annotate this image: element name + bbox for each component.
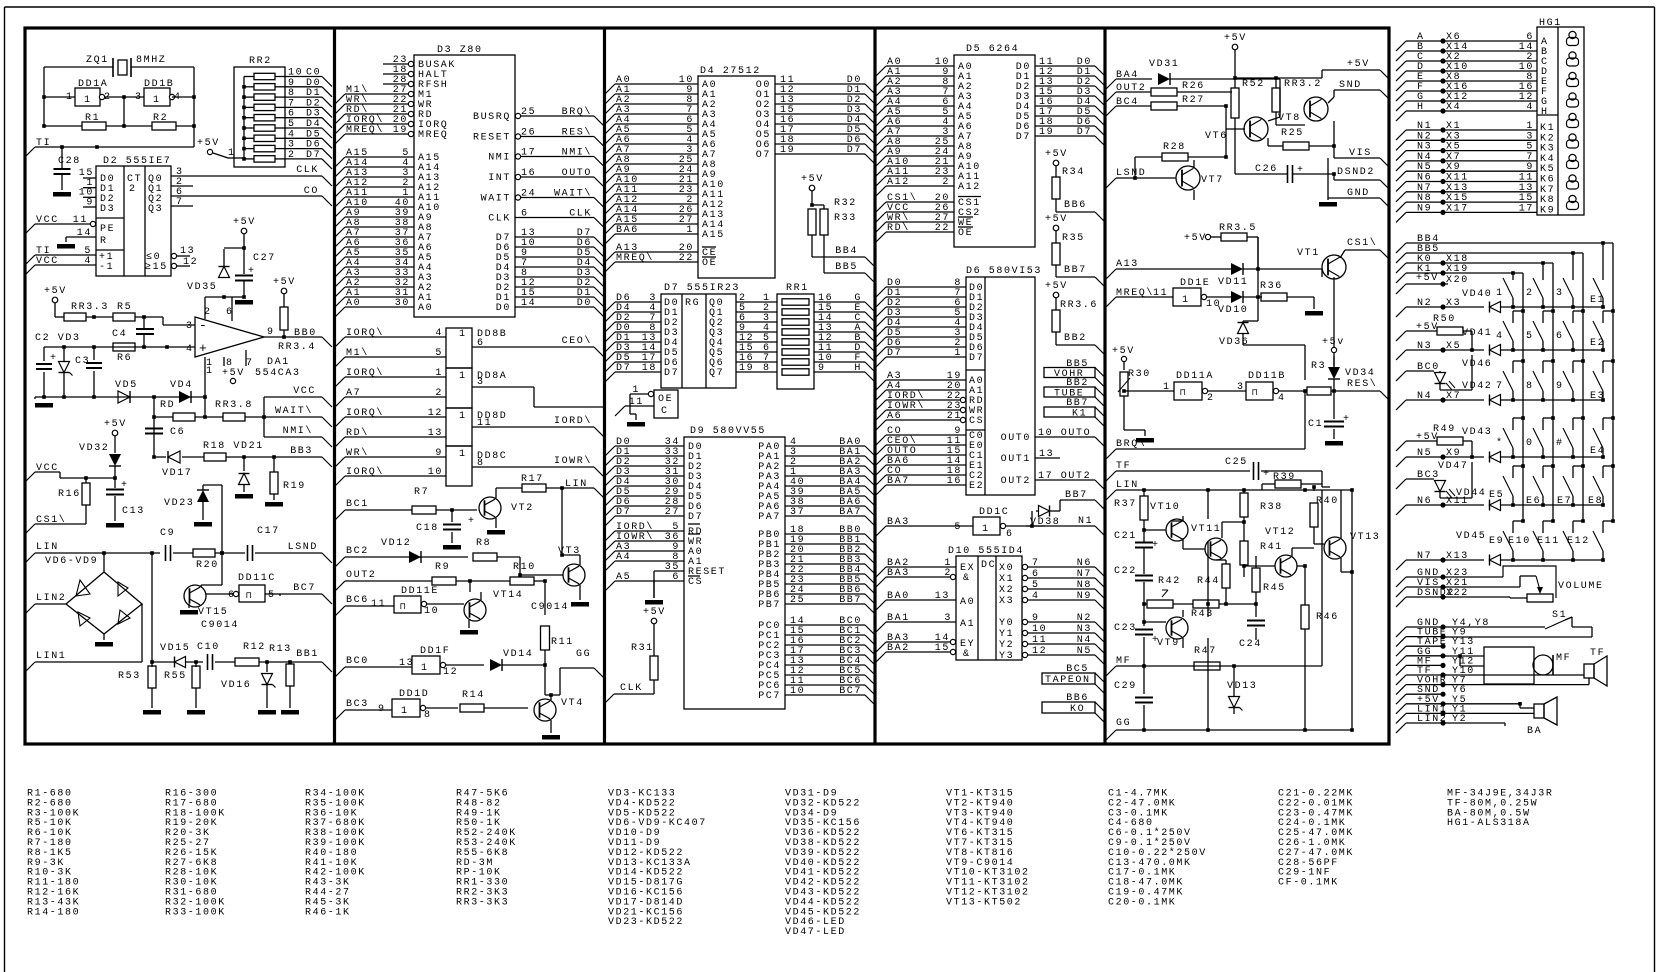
svg-text:X19: X19 (1446, 264, 1469, 275)
node GG (544, 668, 546, 695)
svg-text:E9: E9 (1489, 536, 1504, 547)
node BC3 (335, 710, 345, 720)
svg-text:⊓: ⊓ (400, 602, 407, 612)
svg-text:C24: C24 (1239, 639, 1262, 650)
svg-text:7: 7 (1496, 381, 1504, 392)
svg-text:VCC: VCC (293, 386, 316, 397)
svg-text:-1: -1 (99, 262, 114, 273)
op-amp pins 2 6 wires up (204, 297, 206, 319)
svg-text:X17: X17 (1446, 203, 1469, 214)
svg-text:16: 16 (947, 476, 962, 487)
svg-text:⊓: ⊓ (1180, 388, 1187, 398)
svg-text:A12: A12 (958, 182, 981, 193)
op-amp pin7 wire (245, 350, 247, 366)
svg-text:INT: INT (488, 173, 511, 184)
svg-text:19: 19 (780, 145, 795, 156)
resistor R1 (82, 122, 106, 130)
svg-text:9: 9 (1032, 613, 1040, 624)
svg-text:Y1: Y1 (999, 629, 1014, 640)
svg-text:6: 6 (521, 209, 529, 220)
svg-text:CS1\: CS1\ (1347, 237, 1377, 249)
svg-text:C: C (661, 406, 669, 417)
svg-text:+5V: +5V (222, 368, 245, 379)
svg-text:BA1: BA1 (887, 613, 910, 624)
svg-text:H: H (854, 363, 862, 374)
diode VD36 (1238, 323, 1249, 334)
svg-text:R39: R39 (1273, 472, 1296, 483)
svg-text:VD31: VD31 (1149, 59, 1179, 70)
svg-text:4: 4 (1526, 102, 1534, 113)
svg-text:H: H (1541, 107, 1549, 118)
svg-text:R49: R49 (1433, 424, 1456, 435)
svg-text:11: 11 (629, 397, 644, 408)
svg-text:10 OUTO: 10 OUTO (1038, 428, 1091, 439)
svg-text:N8: N8 (1077, 580, 1092, 591)
crystal ZQ1 (112, 58, 114, 77)
resistor R53 (151, 662, 153, 667)
svg-text:3: 3 (1237, 382, 1245, 393)
svg-text:R19: R19 (283, 481, 306, 492)
svg-text:HG1-ALS318A: HG1-ALS318A (1447, 818, 1531, 829)
svg-text:MREQ\: MREQ\ (616, 252, 654, 264)
svg-text:1: 1 (1496, 288, 1504, 299)
diode VD17 (168, 451, 180, 463)
svg-text:E2: E2 (969, 481, 984, 492)
wire riser VT10 VT9 chain (1207, 490, 1209, 519)
resistor R55 (195, 662, 197, 667)
svg-text:13: 13 (180, 246, 195, 257)
resistor R8 (473, 553, 497, 561)
svg-text:BB7: BB7 (1064, 265, 1087, 276)
svg-text:4: 4 (1032, 591, 1040, 602)
svg-text:R10: R10 (513, 562, 536, 573)
op-amp pin1 wire down (204, 357, 206, 397)
zener VD21 (243, 457, 245, 471)
svg-text:NMI\: NMI\ (283, 425, 313, 437)
svg-text:A0: A0 (418, 303, 433, 314)
svg-text:OE: OE (958, 228, 973, 239)
svg-text:1: 1 (84, 95, 92, 106)
zener VD16 (266, 662, 268, 672)
svg-text:VD47: VD47 (1438, 461, 1468, 472)
node LSND (255, 552, 322, 554)
svg-text:E11: E11 (1537, 536, 1560, 547)
D5 control pins (876, 202, 886, 212)
svg-text:M1\: M1\ (346, 347, 369, 359)
gate DD1F (412, 656, 440, 674)
svg-text:N6: N6 (1077, 558, 1092, 569)
VT13 collector emitter (1340, 558, 1342, 572)
svg-text:R33: R33 (834, 213, 857, 224)
frame outer border (4, 7, 6, 972)
resistor RR3.3 (64, 313, 86, 321)
svg-text:CLK: CLK (296, 165, 319, 176)
svg-text:N9: N9 (1077, 591, 1092, 602)
svg-text:12: 12 (1032, 646, 1047, 657)
svg-text:VD34: VD34 (1345, 368, 1375, 379)
VT3 emitter down (579, 585, 581, 600)
capacitor C13 (114, 478, 116, 488)
D7 data pins (605, 302, 615, 312)
svg-text:E5: E5 (1489, 490, 1504, 501)
svg-text:C3: C3 (75, 356, 90, 367)
svg-text:8: 8 (1526, 381, 1534, 392)
resistor R10 (510, 577, 534, 585)
resistor R6 (113, 343, 135, 351)
svg-text:1: 1 (435, 368, 443, 379)
svg-text:13: 13 (1039, 449, 1054, 460)
digit rows N1-N9 (1396, 130, 1406, 140)
svg-text:OUT1: OUT1 (1001, 454, 1031, 465)
svg-text:LIN2: LIN2 (36, 593, 66, 604)
svg-text:18: 18 (642, 363, 657, 374)
svg-text:VD10: VD10 (1218, 305, 1248, 316)
svg-text:R50: R50 (1433, 314, 1456, 325)
svg-text:17 OUT2: 17 OUT2 (1038, 471, 1091, 482)
svg-text:PA7: PA7 (758, 512, 781, 523)
svg-text:OE: OE (658, 394, 673, 405)
svg-text:X20: X20 (1446, 275, 1469, 286)
svg-text:VD16: VD16 (221, 680, 251, 691)
svg-text:VT12: VT12 (1265, 527, 1295, 538)
decoder D10 555ID4 box (956, 556, 1022, 660)
capacitor C18 (451, 510, 453, 522)
svg-text:26: 26 (521, 128, 536, 139)
svg-text:+5V: +5V (1416, 273, 1439, 284)
DD8C output IOWR (472, 466, 594, 468)
svg-text:6: 6 (1032, 569, 1040, 580)
svg-text:R11: R11 (551, 637, 574, 648)
svg-text:9: 9 (86, 198, 94, 209)
svg-text:PE: PE (100, 224, 115, 235)
wire LIN to VT3 collector (561, 488, 563, 555)
svg-text:4: 4 (1496, 331, 1504, 342)
svg-text:GG: GG (1116, 718, 1131, 729)
op-amp DA1 554CA3 (195, 317, 264, 357)
svg-text:3: 3 (186, 321, 194, 332)
diode VD3 zener (63, 347, 65, 361)
svg-text:9: 9 (818, 363, 826, 374)
resistor R9 (432, 577, 456, 585)
svg-text:E10: E10 (1508, 536, 1531, 547)
svg-text:5: 5 (435, 348, 443, 359)
svg-text:6: 6 (477, 338, 485, 349)
svg-text:DA1: DA1 (267, 357, 290, 368)
svg-text:RG: RG (685, 298, 700, 309)
RR1 right pins (814, 301, 865, 303)
svg-text:Q3: Q3 (148, 204, 163, 215)
svg-text:21: 21 (947, 411, 962, 422)
svg-text:PB7: PB7 (758, 600, 781, 611)
wire +5V to RR3.3 (54, 303, 56, 317)
node BB1 row (151, 553, 153, 662)
svg-text:A1: A1 (960, 619, 975, 630)
svg-text:37: 37 (790, 507, 805, 518)
svg-text:BA: BA (1527, 726, 1542, 737)
svg-text:7: 7 (1032, 558, 1040, 569)
svg-text:2: 2 (129, 184, 137, 195)
svg-text:11: 11 (73, 215, 88, 226)
svg-text:A15: A15 (702, 230, 725, 241)
svg-text:RR3.8: RR3.8 (215, 400, 253, 411)
svg-text:KO: KO (1070, 704, 1085, 715)
RAM D5 6264 box (954, 55, 1035, 247)
svg-text:2: 2 (1526, 288, 1534, 299)
svg-text:X13: X13 (1446, 551, 1469, 562)
svg-text:K1: K1 (1072, 409, 1087, 420)
svg-text:CO: CO (304, 186, 319, 197)
resistor R46 (1301, 605, 1309, 629)
svg-text:⊓: ⊓ (246, 591, 253, 601)
capacitor C27 (243, 234, 245, 274)
diode VD10 (1231, 291, 1243, 303)
svg-text:C9: C9 (160, 528, 175, 539)
resistor R19 (273, 457, 275, 472)
svg-text:C23: C23 (1114, 623, 1137, 634)
transistor VT9 (1166, 617, 1188, 639)
svg-text:+5V: +5V (273, 277, 296, 288)
svg-text:11: 11 (371, 599, 386, 610)
svg-text:BA0: BA0 (887, 591, 910, 602)
svg-text:C13: C13 (122, 506, 145, 517)
svg-text:BB4: BB4 (835, 246, 858, 257)
svg-text:TF: TF (1590, 648, 1605, 659)
svg-text:VT15: VT15 (198, 607, 228, 618)
svg-text:BC1: BC1 (346, 499, 369, 510)
svg-text:+: + (1152, 540, 1160, 551)
wire RD RR3.8 row (154, 416, 173, 418)
svg-text:D7: D7 (1016, 132, 1031, 143)
svg-text:VD43: VD43 (1462, 427, 1492, 438)
svg-text:R37: R37 (1114, 499, 1137, 510)
svg-text:24: 24 (521, 189, 536, 200)
svg-text:R33-100K: R33-100K (165, 907, 226, 918)
svg-text:A4: A4 (616, 552, 631, 563)
svg-text:12: 12 (183, 257, 198, 268)
svg-text:IORQ\: IORQ\ (346, 367, 384, 379)
svg-text:Q7: Q7 (709, 368, 724, 379)
svg-text:H: H (1417, 102, 1425, 113)
svg-text:D6 580VI53: D6 580VI53 (966, 266, 1042, 277)
svg-text:10: 10 (428, 467, 443, 478)
svg-text:C1: C1 (1308, 419, 1323, 430)
transistor VT15 (184, 585, 206, 607)
segment rows A-H (1396, 41, 1406, 51)
svg-text:D7: D7 (306, 150, 321, 161)
node BC6 (335, 606, 345, 616)
svg-text:R40: R40 (1316, 496, 1339, 507)
svg-text:VD13: VD13 (1227, 681, 1257, 692)
svg-text:10: 10 (1032, 624, 1047, 635)
svg-text:10: 10 (790, 686, 805, 697)
svg-text:NMI\: NMI\ (562, 147, 592, 159)
svg-text:1: 1 (401, 706, 409, 717)
svg-text:11: 11 (1032, 635, 1047, 646)
svg-text:R26: R26 (1182, 81, 1205, 92)
resistor R12 (235, 658, 259, 666)
resistor RD (173, 413, 195, 421)
svg-text:+5v: +5v (1322, 337, 1345, 348)
svg-text:RR3.6: RR3.6 (1060, 300, 1098, 311)
svg-text:VT4: VT4 (561, 698, 584, 709)
svg-text:+5V: +5V (1112, 346, 1135, 357)
D2 pin 14 to ground (66, 236, 96, 238)
svg-text:5: 5 (1032, 580, 1040, 591)
diode VD12 (409, 551, 421, 563)
svg-text:+: + (468, 516, 476, 527)
svg-text:C2 VD3: C2 VD3 (35, 333, 81, 344)
svg-text:VT10: VT10 (1150, 502, 1180, 513)
main schematic thick border (25, 28, 1389, 744)
VT2 emitter ground (495, 518, 497, 528)
svg-text:OUTO: OUTO (562, 168, 592, 179)
svg-text:2: 2 (435, 388, 443, 399)
svg-text:C6: C6 (170, 427, 185, 438)
transistor VT14 (464, 599, 486, 621)
svg-text:VD35: VD35 (187, 282, 217, 293)
ground below bridge (103, 634, 105, 640)
svg-text:6: 6 (1006, 529, 1014, 540)
Z80 address pins left (335, 157, 345, 167)
diode VD38 (1039, 506, 1050, 517)
gate DD1B (144, 88, 170, 106)
node BC2 (335, 557, 345, 567)
svg-text:MREQ\: MREQ\ (346, 124, 384, 136)
svg-text:BA2: BA2 (887, 643, 910, 654)
svg-text:1: 1 (459, 371, 467, 382)
svg-text:WAIT\: WAIT\ (554, 188, 592, 200)
svg-text:+5V: +5V (233, 217, 256, 228)
op-amp pin8 +5V (223, 357, 225, 366)
svg-text:R55: R55 (164, 671, 187, 682)
svg-text:C9014: C9014 (201, 620, 239, 631)
svg-text:DD11B: DD11B (1248, 371, 1286, 382)
resistor R20 (173, 552, 193, 554)
DD8 input rows (335, 337, 345, 347)
capacitor C3 (93, 347, 95, 360)
ground below C27 (235, 300, 253, 305)
svg-text:C10: C10 (197, 642, 220, 653)
svg-text:D7 555IR23: D7 555IR23 (664, 283, 740, 294)
resistor R17 (495, 488, 497, 498)
svg-text:C22: C22 (1114, 566, 1137, 577)
D4 address pins (605, 84, 615, 94)
svg-text:+5V: +5V (1045, 149, 1068, 160)
svg-text:C20-0.1MK: C20-0.1MK (1108, 897, 1176, 908)
svg-text:C18: C18 (416, 523, 439, 534)
svg-text:D7: D7 (616, 363, 631, 374)
resistor R40 (1313, 487, 1315, 491)
svg-text:*: * (1496, 437, 1504, 449)
svg-text:VD12: VD12 (381, 538, 411, 549)
svg-text:VD6-VD9: VD6-VD9 (45, 556, 98, 567)
svg-text:OUT2: OUT2 (346, 570, 376, 581)
svg-text:BUSRQ: BUSRQ (473, 112, 511, 123)
svg-text:N7: N7 (1077, 569, 1092, 580)
gate DD11C (239, 585, 265, 602)
gate DD1C (973, 517, 1000, 535)
svg-text:O7: O7 (756, 150, 771, 161)
svg-text:BB7: BB7 (839, 595, 862, 606)
output rows Y (1396, 627, 1406, 637)
svg-text:ZQ1: ZQ1 (86, 55, 109, 66)
diode VD15 (175, 657, 186, 668)
svg-text:16: 16 (521, 168, 536, 179)
svg-text:VD42: VD42 (1462, 381, 1492, 392)
svg-text:DD11E: DD11E (401, 586, 439, 597)
wire lower op-amp net (35, 396, 205, 398)
svg-text:1: 1 (206, 366, 214, 377)
svg-text:VT6: VT6 (1205, 131, 1228, 142)
svg-text:DD1C: DD1C (979, 507, 1009, 518)
wire LIN2 row (1443, 722, 1505, 724)
svg-text:R53: R53 (118, 671, 141, 682)
gates DD8 box stack (446, 328, 472, 368)
svg-text:1: 1 (459, 449, 467, 460)
svg-text:0: 0 (1526, 438, 1534, 449)
svg-text:IORQ\: IORQ\ (346, 407, 384, 419)
svg-text:12: 12 (443, 667, 458, 678)
register D7 555IR23 box (661, 294, 736, 388)
svg-text:+5V: +5V (1045, 214, 1068, 225)
svg-text:VD41: VD41 (1462, 328, 1492, 339)
svg-text:25: 25 (790, 595, 805, 606)
resistor R13 (289, 662, 291, 664)
wire gate to resistor junction (123, 97, 125, 126)
svg-text:R30: R30 (1128, 369, 1151, 380)
svg-text:1: 1 (686, 225, 694, 236)
resistor network RR1 box (777, 294, 814, 389)
svg-text:CEO\: CEO\ (562, 335, 592, 347)
svg-text:VD47-LED: VD47-LED (785, 927, 846, 938)
svg-text:X4: X4 (1446, 102, 1461, 113)
svg-text:5: 5 (954, 522, 962, 533)
D9 data pins (605, 446, 615, 456)
svg-text:C9014: C9014 (531, 602, 569, 613)
gate DD11E (394, 596, 421, 613)
capacitor C28 (61, 147, 63, 168)
svg-text:CLK: CLK (620, 683, 643, 694)
svg-text:DD11A: DD11A (1176, 371, 1214, 382)
svg-text:4: 4 (186, 344, 194, 355)
svg-text:DD11C: DD11C (238, 573, 276, 584)
svg-text:8: 8 (763, 363, 771, 374)
svg-text:R27: R27 (1182, 95, 1205, 106)
transistor VT2 (479, 497, 501, 519)
svg-text:R3: R3 (1311, 361, 1326, 372)
svg-text:VD5: VD5 (115, 380, 138, 391)
diode VD23 (197, 490, 209, 502)
svg-text:VD11: VD11 (1218, 277, 1248, 288)
svg-text:RD\: RD\ (887, 222, 910, 234)
svg-text:VD44: VD44 (1456, 488, 1486, 499)
svg-text:+5V: +5V (643, 607, 666, 618)
svg-text:554CA3: 554CA3 (255, 368, 301, 379)
svg-text:CS: CS (688, 577, 703, 588)
svg-text:N1: N1 (1078, 516, 1093, 527)
svg-text:D7: D7 (969, 353, 984, 364)
gate DD11A (1174, 382, 1202, 400)
D6 gate pins (876, 435, 886, 445)
svg-text:RR3.4: RR3.4 (278, 342, 316, 353)
svg-text:VT1: VT1 (1297, 248, 1320, 259)
svg-text:9: 9 (1556, 381, 1564, 392)
wire VT1 emitter (1333, 277, 1335, 366)
diode VD14 (490, 659, 502, 671)
svg-text:3: 3 (1556, 288, 1564, 299)
D2 output Q2 CO (171, 195, 322, 197)
svg-text:BB0: BB0 (294, 328, 317, 339)
